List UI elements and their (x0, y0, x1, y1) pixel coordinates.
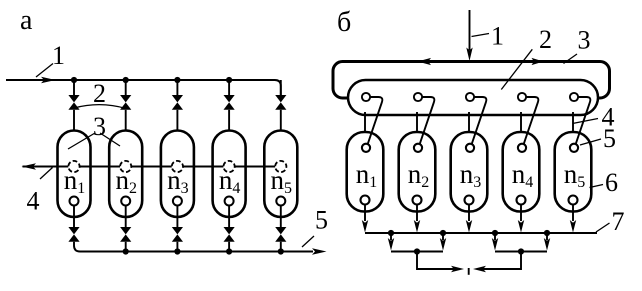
top port circle inside vessel n3 (466, 144, 474, 152)
label 1 with leader, diagram b (472, 22, 505, 51)
bottom port circle inside vessel n5 (diagram b) (569, 196, 578, 205)
arrow pointing right on manifold top edge (532, 58, 544, 65)
wire: bottom valve 5 to line 5 (280, 242, 282, 252)
wire: second-level left header (391, 251, 443, 253)
wire: neck from manifold to vessel n5 (572, 112, 574, 133)
junction dot on line 1 at vessel n4 branch (226, 77, 232, 83)
wire: bottom collecting line (stream 5), diagram a (74, 242, 313, 252)
wire: swan-neck pipe from manifold port to vessel n1 (368, 97, 383, 144)
arrow pointing right on final line (451, 266, 464, 272)
wire: swan-neck pipe from manifold port to vessel n2 (420, 97, 435, 144)
vessel n1, diagram b (347, 132, 384, 212)
junction dot on line 5 at vessel n2 (123, 248, 129, 254)
wire: top valve 1 to vessel n1 (73, 110, 75, 132)
vessel (column) n5, diagram a (264, 131, 297, 218)
wire: neck from manifold to vessel n1 (364, 112, 366, 133)
wire: drop from line 1 to top valve 4 (228, 80, 230, 96)
manifold port circle above vessel n1 (362, 93, 370, 101)
dashed circle port inside vessel n3 (172, 161, 183, 172)
arrowhead of vessel n4 outlet (518, 220, 524, 233)
label 4 with leader, diagram a (27, 168, 53, 216)
wire: bottom valve 4 to line 5 (228, 242, 230, 252)
vessel n3, diagram b (451, 132, 488, 212)
valve (bottom) on vessel n1 outlet (68, 227, 79, 242)
wire: bottom valve 2 to line 5 (125, 242, 127, 252)
wire: top valve 3 to vessel n3 (176, 110, 178, 132)
arrowhead of vessel n2 outlet (414, 220, 420, 233)
junction dot on header at x=443 (440, 230, 446, 236)
manifold port circle above vessel n4 (518, 93, 526, 101)
bottom port circle inside vessel n1 (70, 197, 79, 206)
arrow on line 1 pointing right (41, 77, 56, 84)
wire: top valve 4 to vessel n4 (228, 110, 230, 132)
top port circle inside vessel n1 (362, 144, 370, 152)
vessel (column) n1, diagram a (58, 131, 91, 218)
wire: drop with arrow from header at x=547 (544, 233, 550, 251)
wire: drop from line 1 to top valve 1 (73, 80, 75, 96)
bottom port circle inside vessel n3 (173, 197, 182, 206)
vessel (column) n4, diagram a (213, 131, 246, 218)
wire: second-level right header (495, 251, 547, 253)
valve 2 (top) on vessel n1 branch (68, 95, 79, 110)
svg-text:1: 1 (491, 22, 504, 51)
svg-text:5: 5 (315, 206, 328, 235)
junction dot on header at x=391 (388, 230, 394, 236)
dashed circle port inside vessel n5 (275, 161, 286, 172)
manifold port circle above vessel n3 (466, 93, 474, 101)
inner manifold pipe 2 (capsule) (348, 80, 598, 115)
wire: neck from manifold to vessel n4 (520, 112, 522, 133)
label 5 with leader, diagram b (580, 124, 616, 153)
wire: vessel n3 bottom port to bottom valve (176, 206, 178, 229)
label 6 with leader to vessel n5 wall (590, 168, 619, 197)
wire: drop from line 1 to top valve 5 (280, 80, 282, 96)
svg-text:6: 6 (605, 168, 618, 197)
wire: swan-neck pipe from manifold port to vessel n4 (524, 97, 539, 144)
svg-text:а: а (20, 5, 33, 36)
label 1 with leader, diagram a (36, 41, 65, 77)
junction dot on line 1 at vessel n1 branch (71, 77, 77, 83)
label 3 with leader, diagram b (564, 26, 591, 64)
junction dot on second-level right header (518, 248, 524, 254)
bottom port circle inside vessel n2 (diagram b) (413, 196, 422, 205)
manifold port circle above vessel n5 (570, 93, 578, 101)
label 2 with curved leader to the valves (74, 79, 126, 109)
wire: drop with arrow from header at x=443 (440, 233, 446, 251)
arrow on line 4 pointing left (22, 163, 37, 170)
label 4 with leader, diagram b (573, 103, 615, 132)
valve 2 (top) on vessel n2 branch (120, 95, 131, 110)
wire: vessel n2 outlet (416, 205, 418, 222)
stub below final junction (468, 268, 470, 275)
wire: neck from manifold to vessel n2 (416, 112, 418, 133)
bottom port circle inside vessel n4 (225, 197, 234, 206)
top port circle inside vessel n2 (414, 144, 422, 152)
valve (bottom) on vessel n3 outlet (172, 227, 183, 242)
vessel n2, diagram b (399, 132, 436, 212)
wire: top valve 5 to vessel n5 (280, 110, 282, 132)
bottom port circle inside vessel n3 (diagram b) (465, 196, 474, 205)
dashed circle port inside vessel n1 (68, 161, 79, 172)
arrow pointing left on final line (473, 266, 486, 272)
wire: drop with arrow from header at x=391 (388, 233, 394, 251)
junction dot on line 5 at vessel n5 (278, 248, 284, 254)
wire: swan-neck pipe from manifold port to vessel n3 (472, 97, 487, 144)
junction dot on line 5 at vessel n3 (174, 248, 180, 254)
valve (bottom) on vessel n2 outlet (120, 227, 131, 242)
wire: vessel n3 outlet (468, 205, 470, 222)
outer manifold shell 3 (rounded rectangle) (333, 62, 610, 99)
wire: vessel n1 bottom port to bottom valve (73, 206, 75, 229)
valve 2 (top) on vessel n3 branch (172, 95, 183, 110)
svg-text:2: 2 (539, 25, 552, 54)
junction dot on second-level left header (414, 248, 420, 254)
arrow at right end of line 5 (312, 248, 327, 255)
wire: vessel n4 outlet (520, 205, 522, 222)
valve 2 (top) on vessel n5 branch (275, 95, 286, 110)
wire: right drop to final line (480, 252, 521, 270)
svg-text:4: 4 (27, 187, 40, 216)
svg-text:1: 1 (52, 41, 65, 70)
wire: neck from manifold to vessel n3 (468, 112, 470, 133)
arrowhead of vessel n1 outlet (362, 220, 368, 233)
label 3 with two leaders into vessels n1 and n2 (68, 112, 120, 149)
vessel (column) n3, diagram a (161, 131, 194, 218)
svg-text:3: 3 (93, 112, 106, 141)
wire: vessel n2 bottom port to bottom valve (125, 206, 127, 229)
junction dot on line 5 at vessel n4 (226, 248, 232, 254)
svg-text:3: 3 (578, 26, 591, 55)
svg-text:5: 5 (603, 124, 616, 153)
vessel n4, diagram b (503, 132, 540, 212)
arrowhead of vessel n5 outlet (570, 220, 576, 233)
bottom port circle inside vessel n5 (276, 197, 285, 206)
arrowhead of feed line 1 onto manifold (466, 48, 472, 62)
label 2 with leader, diagram b (501, 25, 552, 90)
arrowhead of vessel n3 outlet (466, 220, 472, 233)
top port circle inside vessel n5 (570, 144, 578, 152)
wire: middle withdrawal line (stream 4) through vessels (23, 166, 276, 168)
wire: vessel n4 bottom port to bottom valve (228, 206, 230, 229)
valve 2 (top) on vessel n4 branch (224, 95, 235, 110)
wire: swan-neck pipe from manifold port to vessel n5 (576, 97, 591, 144)
wire: top manifold line (stream 1), diagram a (6, 80, 281, 96)
junction dot on header at x=547 (544, 230, 550, 236)
svg-text:2: 2 (93, 79, 106, 108)
bottom port circle inside vessel n1 (diagram b) (361, 196, 370, 205)
dashed circle port inside vessel n4 (224, 161, 235, 172)
bottom port circle inside vessel n4 (diagram b) (517, 196, 526, 205)
dashed circle port inside vessel n2 (120, 161, 131, 172)
bottom port circle inside vessel n2 (121, 197, 130, 206)
arrow pointing left on manifold top edge (418, 58, 432, 65)
valve (bottom) on vessel n4 outlet (224, 227, 235, 242)
wire: feed line (stream 1) into manifold, diagram b (469, 10, 471, 50)
wire: vessel n1 outlet (364, 205, 366, 222)
wire: bottom valve 3 to line 5 (176, 242, 178, 252)
label 7 with leader, diagram b (596, 207, 625, 236)
wire: drop from line 1 to top valve 2 (125, 80, 127, 96)
manifold port circle above vessel n2 (414, 93, 422, 101)
valve (bottom) on vessel n5 outlet (275, 227, 286, 242)
wire: first collecting header (stream 7) (365, 232, 597, 234)
label 5 with leader, diagram a (302, 206, 328, 248)
junction dot on header at x=495 (492, 230, 498, 236)
junction dot on line 1 at vessel n2 branch (123, 77, 129, 83)
svg-text:б: б (337, 7, 351, 38)
wire: vessel n5 outlet (572, 205, 574, 222)
wire: drop with arrow from header at x=495 (492, 233, 498, 251)
wire: top valve 2 to vessel n2 (125, 110, 127, 132)
junction dot on line 1 at vessel n3 branch (174, 77, 180, 83)
top port circle inside vessel n4 (518, 144, 526, 152)
vessel (column) n2, diagram a (109, 131, 142, 218)
wire: vessel n5 bottom port to bottom valve (280, 206, 282, 229)
svg-text:7: 7 (612, 207, 625, 236)
vessel n5, diagram b (555, 132, 592, 212)
wire: left drop to final line (417, 252, 459, 270)
wire: drop from line 1 to top valve 3 (176, 80, 178, 96)
